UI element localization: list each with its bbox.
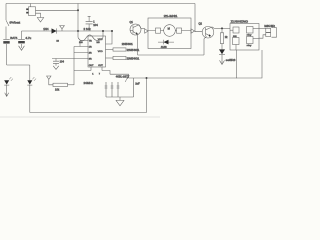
connector J1 (top-left box) [29,7,36,16]
IC left pin wires [80,41,88,47]
motor box [148,18,191,49]
LED D5 [4,80,9,84]
svg-text:4.7u: 4.7u [25,36,31,40]
wire J1 out [36,9,79,11]
wire top rail drop to Q2 [195,4,202,32]
svg-text:OUT: OUT [98,65,103,67]
wire gnd net y78 [129,77,238,79]
svg-text:VCC: VCC [98,39,103,41]
LED D6 [27,80,32,84]
wire bottom return [30,112,147,114]
wire left rail lower [6,44,8,65]
svg-text:1N4: 1N4 [43,27,49,31]
wire LED rail [7,64,30,66]
wire y74 [110,74,129,78]
faint page bottom border [0,116,160,118]
svg-text:VCO: VCO [98,51,103,53]
ground under J1 [37,18,43,23]
wire Q2 collector to relay [214,27,230,29]
svg-text:2N5401: 2N5401 [127,56,140,60]
battery BAT1 [3,39,9,41]
IC U1 [88,36,106,67]
wire Q1 collector to motor [141,28,145,30]
node junction y78 [146,77,148,79]
transistor Q2 [202,26,214,38]
wire vertical x78 [77,4,79,32]
diode D3 [219,49,225,54]
node (78,9.5) [77,9,79,11]
wire LED2 drop [29,65,31,80]
IC bottom pin tie [74,67,102,71]
capacitor C2 4.7u [21,31,23,39]
transistor Q1 [130,24,141,35]
wire J1 pin2 to ground [36,13,41,17]
cluster bracket [106,96,134,98]
wire Q2 emitter down [204,36,207,55]
ground arrow under C2 [19,46,25,51]
svg-text:2N5401: 2N5401 [122,42,134,46]
switch SW1 [6,20,9,26]
svg-text:2 10k: 2 10k [84,27,92,31]
svg-text:BAT1: BAT1 [10,36,18,40]
wire Q1 emitter down [137,34,139,55]
power symbol [60,26,65,29]
capacitor C3 on pin4 [55,59,57,61]
node (78,31) [77,30,79,32]
svg-text:9Vbat: 9Vbat [10,20,21,24]
svg-text:104: 104 [93,23,98,27]
svg-text:104: 104 [60,59,65,63]
wire emitter rail y55 [138,54,205,56]
svg-text:1uF: 1uF [135,82,140,86]
ground under cluster [119,97,121,100]
arrow out of motor box [191,29,195,33]
wire LED2 tail [29,85,31,112]
svg-text:1R: 1R [89,47,92,49]
svg-text:TR: TR [89,41,92,43]
svg-text:ee5R3: ee5R3 [226,59,236,62]
svg-text:M: M [168,26,170,30]
svg-text:2R: 2R [89,53,92,55]
diode D2 4148 [163,40,168,45]
svg-text:4148: 4148 [161,45,167,49]
wire top power rail [6,3,195,5]
resistor R2 10k (wave above IC) [77,31,79,37]
svg-text:OUT: OUT [89,65,94,67]
wire relay bottom to gnd net [236,50,238,78]
IC right pins with resistors [106,31,113,44]
wire left rail upper [5,4,7,21]
svg-text:24MHz: 24MHz [84,81,94,85]
capacitor C1 104 [88,15,91,17]
arrow into motor box [145,29,148,33]
arrow to ground [220,55,225,65]
svg-text:10k: 10k [55,87,60,91]
motor M [164,25,176,37]
antenna / resistor R5 row [47,76,51,79]
svg-text:3R: 3R [89,59,92,61]
resistor R6 [221,28,223,32]
arrow to ground LED1 [5,90,9,96]
svg-text:21-M41: 21-M41 [164,14,178,18]
wire right riser [146,78,148,113]
svg-text:2N5401: 2N5401 [127,48,140,52]
wire main net y31 [22,30,113,32]
svg-text:ZUSHENG: ZUSHENG [231,19,249,23]
